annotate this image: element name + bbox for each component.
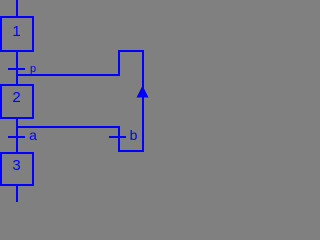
transition a tick (8, 136, 25, 138)
svg-text:3: 3 (12, 157, 20, 174)
step 1 box (0, 16, 34, 52)
svg-text:2: 2 (12, 89, 20, 106)
wire: step 1 to step 2 (16, 51, 18, 85)
svg-text:b: b (130, 127, 138, 143)
wire: loop north vertical (x=118) (118, 50, 120, 76)
svg-text:a: a (29, 127, 37, 143)
wire: trunk below step 3 (16, 185, 18, 202)
wire: loop right vertical (x=142) (142, 50, 144, 152)
wire: step 2 to divergence (16, 118, 18, 153)
wire: transition b branch vertical (x=118) (118, 126, 120, 152)
svg-text:1: 1 (12, 23, 20, 40)
wire: loop top horizontal (y=50) (118, 50, 144, 52)
step 3 box (0, 152, 34, 186)
flow arrow up on right vertical (137, 86, 149, 98)
svg-text:p: p (30, 63, 36, 75)
wire: loop bottom horizontal (y=150) (118, 150, 144, 152)
wire: trunk into step 1 (16, 0, 18, 17)
transition b tick (109, 136, 126, 138)
transition p tick (8, 68, 25, 70)
step 2 box (0, 84, 34, 119)
wire: divergence link to transition b branch (y=126) (16, 126, 120, 128)
wire: convergence link from loop (y=74) (16, 74, 120, 76)
